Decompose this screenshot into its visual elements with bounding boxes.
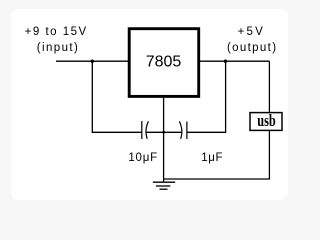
svg-text:10μF: 10μF [128, 152, 158, 164]
svg-text:+5V: +5V [238, 26, 265, 38]
white schematic card background [11, 9, 288, 200]
svg-text:usb: usb [257, 111, 276, 130]
wire: output junction down and left to C2 [187, 61, 226, 132]
svg-text:(input): (input) [37, 42, 79, 54]
wire: input rail to regulator [56, 60, 129, 62]
svg-text:7805: 7805 [146, 54, 182, 71]
node: output junction [224, 60, 227, 63]
ground symbol middle bar [156, 185, 170, 187]
capacitor C1 10uF straight plate [141, 121, 143, 139]
svg-text:1μF: 1μF [201, 152, 223, 164]
svg-text:+9 to 15V: +9 to 15V [25, 26, 88, 38]
wire: usb box down to ground bus [268, 131, 270, 180]
wire: regulator ground pin down to ground [163, 97, 165, 182]
wire: output rail from regulator [199, 60, 269, 62]
wire: node to C2 [164, 131, 182, 133]
regulator U1 7805 box [129, 29, 199, 97]
wire: ground bus [164, 178, 270, 180]
wire: output rail down to usb box [268, 61, 270, 112]
capacitor C2 1uF straight plate [186, 122, 188, 140]
svg-text:(output): (output) [227, 42, 277, 54]
node: input junction [91, 60, 94, 63]
node: capacitor junction [162, 131, 165, 134]
ground symbol top bar [153, 181, 175, 183]
capacitor C2 1uF curved plate [179, 121, 181, 139]
wire: input junction down and right to C1 [92, 61, 141, 132]
usb connector box [250, 113, 282, 131]
ground symbol bottom bar [160, 188, 168, 190]
capacitor C1 10uF curved plate [146, 121, 148, 139]
wire: capacitor rail C1 to node [146, 131, 164, 133]
